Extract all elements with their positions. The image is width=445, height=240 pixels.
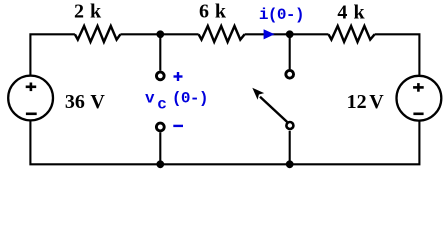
junction dot bottom right — [286, 160, 294, 168]
switch pivot (open circle) — [286, 122, 293, 129]
blue minus sign at vc bottom — [173, 125, 183, 127]
wire: top rail right segment + right vertical top — [375, 34, 420, 75]
V2 minus sign — [413, 113, 423, 116]
capacitor terminal + (open circle) — [156, 72, 164, 80]
switch blade — [260, 97, 287, 122]
wire: stub from node B down to switch top terminal — [289, 34, 291, 69]
voltage source V2 circle — [397, 76, 442, 121]
svg-text:i(0-): i(0-) — [259, 6, 304, 24]
wire: stub from switch pivot down to bottom rail — [289, 131, 291, 165]
wire: top rail between 6k and 4k — [245, 33, 329, 35]
node A junction dot top — [156, 30, 164, 38]
wire: bottom rail with left and right vertical stubs — [30, 121, 419, 164]
V1 plus sign — [26, 83, 37, 92]
wire: top rail between 2k and 6k — [120, 33, 198, 35]
current arrow i(0-) — [264, 29, 275, 39]
junction dot bottom left — [156, 160, 164, 168]
capacitor terminal - (open circle) — [156, 123, 164, 131]
blue plus sign at vc top — [174, 72, 183, 81]
switch blade arrowhead — [252, 88, 264, 100]
wire: stub from capacitor - terminal down to bottom rail — [159, 132, 161, 164]
switch top terminal (open circle) — [286, 70, 294, 78]
svg-text:v: v — [145, 90, 155, 108]
voltage source V1 circle — [8, 76, 53, 121]
svg-text:(0-): (0-) — [172, 90, 208, 108]
V2 plus sign — [413, 83, 424, 92]
resistor R3 4k — [329, 26, 375, 42]
node B junction dot top — [286, 30, 294, 38]
wire: stub from node A down to capacitor + terminal — [159, 34, 161, 70]
V1 minus sign — [26, 113, 37, 116]
resistor R1 2k — [75, 26, 121, 42]
resistor R2 6k — [199, 26, 245, 42]
wire: left vertical top + top-left corner + top rail to 2k — [30, 34, 75, 75]
svg-text:c: c — [157, 95, 166, 113]
svg-text:12V: 12V — [347, 91, 385, 113]
